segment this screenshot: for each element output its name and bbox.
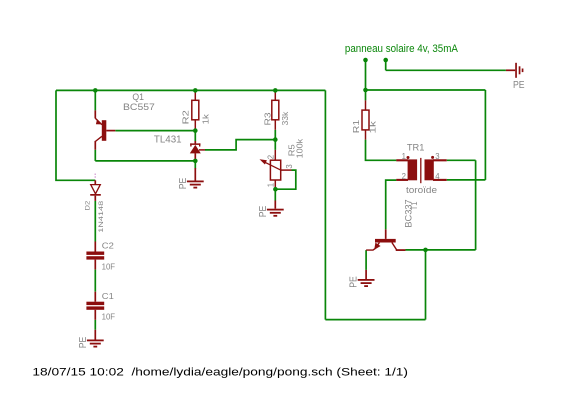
wire Q1 base: [115, 130, 195, 132]
svg-text:PE: PE: [78, 337, 89, 349]
wire C2 to C1: [94, 270, 96, 292]
wire collector to TL431 anode: [95, 160, 195, 162]
svg-text:PE: PE: [258, 206, 269, 218]
svg-text:T1: T1: [410, 202, 419, 211]
ground PE right rotated: [506, 63, 524, 78]
wire collector riser: [425, 250, 427, 320]
svg-text:D2: D2: [85, 200, 92, 210]
svg-text:10F: 10F: [102, 311, 116, 321]
node D2 origin mark: [94, 174, 96, 179]
svg-text:1: 1: [266, 183, 275, 187]
svg-text:Q1: Q1: [132, 92, 144, 102]
transistor T1 BC337: [366, 229, 405, 250]
ground PE under TL431: [187, 168, 204, 189]
svg-text:1k: 1k: [200, 113, 210, 124]
svg-text:4: 4: [435, 172, 440, 181]
svg-text:C2: C2: [102, 241, 114, 251]
svg-text:TR1: TR1: [407, 143, 425, 154]
resistor R3: [272, 90, 279, 129]
node junction rail-R2: [193, 88, 198, 93]
svg-text:C1: C1: [102, 291, 114, 301]
wire left branch down: [56, 90, 95, 180]
wire collector to pin3 drop: [426, 249, 476, 251]
svg-text:R2: R2: [181, 110, 191, 124]
wire R5 wiper loop: [275, 170, 296, 189]
wire C1 to ground: [94, 320, 96, 330]
node solar stub1: [363, 58, 368, 63]
wire Q1 emitter top: [94, 90, 96, 110]
wire T1 emitter down: [365, 250, 367, 270]
transformer TR1: [396, 156, 446, 183]
potentiometer R5: [260, 150, 292, 189]
svg-text:panneau solaire 4v, 35mA: panneau solaire 4v, 35mA: [345, 43, 459, 55]
capacitor C1: [86, 292, 104, 320]
svg-text:3: 3: [285, 164, 294, 168]
svg-text:PE: PE: [349, 276, 360, 288]
svg-text:100k: 100k: [294, 138, 304, 158]
node junction R5 pin1: [273, 187, 278, 192]
resistor R1: [362, 100, 369, 139]
ground PE under T1: [358, 270, 375, 287]
wire R5 bottom to ground: [274, 189, 276, 200]
wire D2 to C2: [94, 201, 96, 242]
wire pin4 horizontal: [447, 179, 486, 181]
wire TL431 anode down: [194, 153, 196, 159]
ground PE under R5: [267, 201, 284, 217]
svg-text:3: 3: [435, 152, 439, 161]
wire bottom return: [325, 319, 425, 321]
wire R1 bottom: [366, 140, 397, 161]
svg-text:1: 1: [402, 152, 406, 161]
node junction rail-R3: [273, 88, 278, 93]
wire pin3 horizontal: [447, 159, 476, 161]
wire top rail: [56, 89, 325, 91]
wire pin3 drop: [475, 160, 477, 250]
svg-text:33k: 33k: [280, 111, 290, 125]
node solar stub2: [383, 58, 388, 63]
node junction solar-R1: [363, 88, 368, 93]
wire R3 bottom: [274, 130, 276, 150]
svg-text:1N4148: 1N4148: [98, 200, 105, 232]
svg-text:10F: 10F: [102, 261, 116, 271]
wire solar stub left: [365, 60, 367, 100]
svg-text:R3: R3: [263, 112, 273, 125]
wire pin2 to base: [386, 180, 397, 229]
svg-text:PE: PE: [513, 80, 525, 91]
wire T1 collector: [405, 249, 425, 251]
node junction TL431-anode: [193, 159, 198, 164]
svg-text:2: 2: [266, 155, 275, 159]
svg-text:1k: 1k: [368, 120, 378, 133]
node junction base-R2-TL431: [193, 128, 198, 133]
capacitor C2: [86, 242, 104, 270]
svg-text:BC557: BC557: [123, 102, 155, 112]
wire solar horizontal: [366, 89, 486, 91]
node junction R3-ref-R5: [273, 137, 278, 142]
svg-text:toroïde: toroïde: [406, 184, 437, 195]
resistor R2: [192, 90, 199, 130]
wire to PE right: [386, 69, 506, 71]
node junction T1 collector: [423, 248, 428, 253]
shunt reference TL431: [190, 131, 205, 154]
diode D2 1N4148: [90, 180, 101, 201]
svg-text:R1: R1: [351, 120, 361, 134]
wire solar stub right: [385, 60, 387, 70]
wire solar right drop: [484, 90, 486, 180]
node junction rail-Q1: [93, 88, 98, 93]
svg-text:18/07/15 10:02 /home/lydia/ea: 18/07/15 10:02 /home/lydia/eagle/pong/po…: [32, 367, 408, 379]
svg-text:PE: PE: [178, 178, 189, 190]
svg-text:2: 2: [402, 172, 406, 181]
wire Q1 collector down: [94, 150, 96, 161]
wire right side drop: [324, 90, 326, 319]
transistor Q1: [95, 110, 115, 149]
wire ref step: [205, 140, 275, 150]
svg-text:TL431: TL431: [154, 135, 182, 146]
ground PE left: [87, 330, 104, 348]
